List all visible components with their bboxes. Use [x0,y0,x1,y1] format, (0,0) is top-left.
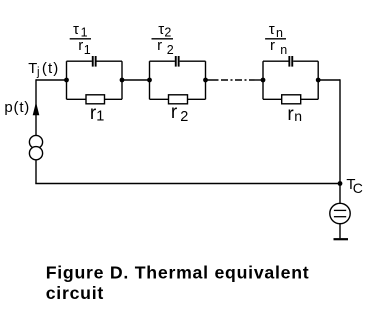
svg-text:2: 2 [167,43,174,57]
svg-text:τ: τ [158,21,164,38]
wire: bottom bus [35,183,340,185]
svg-text:circuit: circuit [46,283,104,303]
label rn under RC cell n [287,104,302,125]
label fraction tau-n / rn [265,21,287,57]
svg-text:r: r [157,37,162,54]
label Tj (t) [28,60,59,79]
wire: Tc source bottom stem [339,224,341,239]
RC cell n: left vertical wire [262,61,264,99]
terminal bar below Tc source [334,238,349,240]
resistor r2 lead left [150,98,169,100]
node dot: Tj at RC1 left [64,78,69,83]
capacitor tau-n lead right [293,60,318,62]
resistor r2 lead right [188,98,206,100]
svg-text:j: j [36,67,40,79]
capacitor tau1 plates [92,56,94,67]
capacitor tau-n lead left [263,60,289,62]
label fraction tau2 / r2 [152,21,174,57]
RC cell 2: right vertical wire [205,61,207,99]
current source symbol (two interlocking circles) [29,135,42,159]
svg-text:C: C [353,180,363,196]
label r2 under RC cell 2 [171,102,188,125]
svg-text:n: n [294,108,302,124]
RC cell n: right vertical wire [317,61,319,99]
svg-text:τ: τ [73,21,79,38]
resistor r2 body [169,95,188,104]
svg-text:r: r [78,37,83,54]
svg-text:T: T [28,61,37,77]
current source arrow p(t) [33,102,40,115]
svg-text:2: 2 [180,109,188,125]
node dot: RC2 right [203,78,208,83]
resistor rn lead right [301,98,319,100]
wire: top bus from Tj corner to RC cell 1 [36,79,67,81]
svg-text:τ: τ [269,21,275,38]
label r1 under RC cell 1 [90,103,104,125]
capacitor tau2 lead right [180,60,206,62]
wire: right rail down to Tc source [339,79,341,203]
svg-text:2: 2 [164,26,171,40]
svg-text:n: n [276,26,283,40]
wire: top bus from RC cell n to right corner [318,79,340,81]
label fraction tau1 / r1 [70,21,91,57]
wire: left rail (Tj node down through current source) [35,79,37,183]
svg-text:r: r [270,37,275,54]
node dot: RCn left [261,78,266,83]
capacitor tau2 plates [175,56,177,67]
node dot: RCn right [316,78,321,83]
svg-text:(t): (t) [42,60,59,77]
caption: Figure D. Thermal equivalent circuit [46,263,310,304]
resistor r1 lead right [105,98,123,100]
capacitor tau1 lead right [97,60,123,62]
voltage source Tc (circle with double bar) [330,203,350,239]
node dot: RC2 left [147,78,152,83]
svg-text:p(t): p(t) [4,99,30,116]
svg-text:1: 1 [84,43,91,57]
resistor r1 body [86,95,105,104]
node dot: RC1 right [120,78,125,83]
svg-text:r: r [171,102,178,123]
RC cell 1: right vertical wire [121,61,123,99]
node dot: Tc junction on bottom bus [338,181,343,186]
resistor rn lead left [263,98,282,100]
capacitor tau2 lead left [150,60,175,62]
capacitor tau-n plates [288,56,290,67]
resistor rn body [282,95,301,104]
svg-text:Figure D. Thermal equivalent: Figure D. Thermal equivalent [46,263,310,283]
wire: dash-dot bus between RC cell 2 and RC cell n [206,79,264,81]
RC cell 1: left vertical wire [66,61,68,99]
svg-text:n: n [280,43,287,57]
svg-text:1: 1 [96,109,104,125]
label Tc [346,177,363,196]
RC cell 2: left vertical wire [149,61,151,99]
capacitor tau1 lead left [67,60,92,62]
resistor r1 lead left [67,98,87,100]
wire: top bus between RC cell 1 and RC cell 2 [122,79,150,81]
